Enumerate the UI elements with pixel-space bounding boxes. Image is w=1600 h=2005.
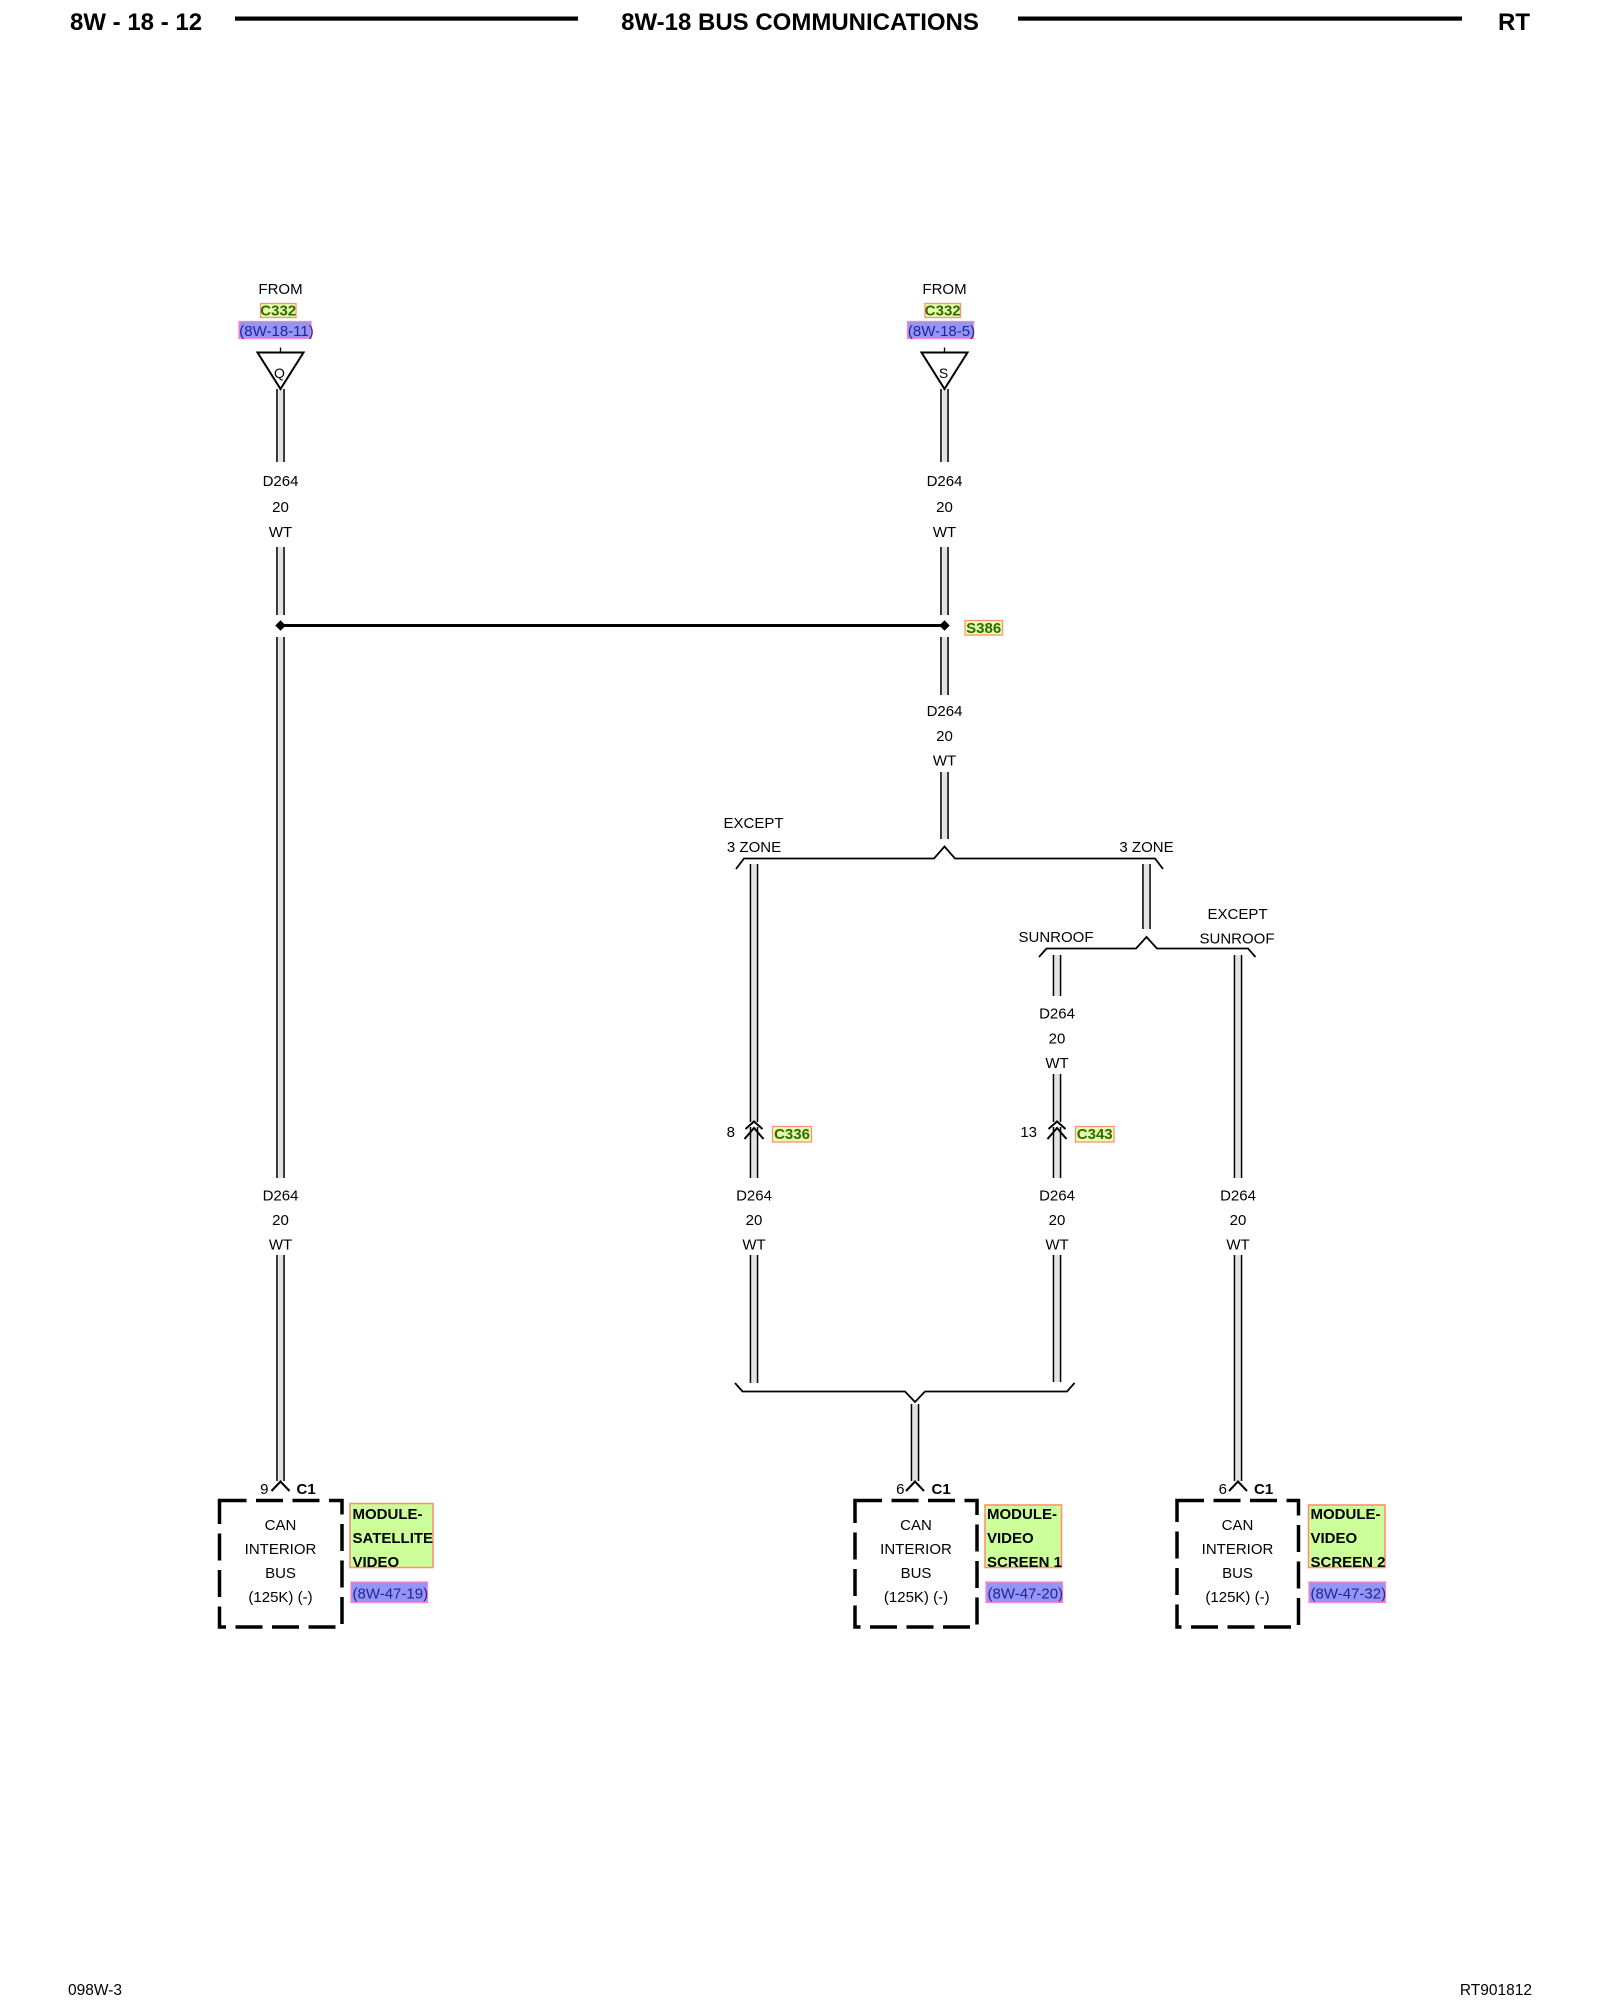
svg-text:WT: WT [1226,1237,1249,1254]
svg-text:20: 20 [1049,1212,1066,1229]
svg-text:S: S [939,365,948,381]
svg-text:SATELLITE: SATELLITE [353,1530,434,1547]
svg-text:20: 20 [272,1212,289,1229]
svg-text:D264: D264 [927,473,963,490]
svg-text:BUS: BUS [901,1565,932,1582]
svg-text:C1: C1 [932,1481,951,1498]
svg-text:D264: D264 [736,1188,772,1205]
svg-text:WT: WT [742,1237,765,1254]
svg-text:20: 20 [1049,1031,1066,1048]
svg-text:MODULE-: MODULE- [1311,1506,1381,1523]
svg-text:13: 13 [1020,1124,1037,1141]
svg-text:C336: C336 [774,1126,810,1143]
svg-text:C1: C1 [1254,1481,1273,1498]
svg-text:(8W-18-5): (8W-18-5) [908,323,975,340]
svg-text:D264: D264 [263,473,299,490]
svg-text:MODULE-: MODULE- [353,1506,423,1523]
svg-text:CAN: CAN [1222,1517,1254,1534]
svg-text:D264: D264 [1039,1188,1075,1205]
svg-text:SUNROOF: SUNROOF [1200,931,1275,948]
svg-text:FROM: FROM [922,281,966,298]
svg-text:20: 20 [1230,1212,1247,1229]
svg-text:SCREEN 2: SCREEN 2 [1311,1554,1386,1571]
svg-text:(125K) (-): (125K) (-) [1205,1589,1269,1606]
svg-text:20: 20 [746,1212,763,1229]
svg-text:8: 8 [727,1124,735,1141]
svg-text:C343: C343 [1077,1126,1113,1143]
svg-text:098W-3: 098W-3 [68,1982,122,1999]
svg-text:6: 6 [1219,1481,1227,1498]
svg-text:8W-18 BUS COMMUNICATIONS: 8W-18 BUS COMMUNICATIONS [621,9,979,36]
svg-text:VIDEO: VIDEO [987,1530,1034,1547]
svg-text:S386: S386 [966,620,1001,637]
svg-text:FROM: FROM [258,281,302,298]
svg-text:WT: WT [933,524,956,541]
svg-text:CAN: CAN [900,1517,932,1534]
svg-text:CAN: CAN [265,1517,297,1534]
svg-text:D264: D264 [263,1188,299,1205]
svg-text:RT901812: RT901812 [1460,1982,1532,1999]
svg-text:(8W-47-20): (8W-47-20) [988,1586,1064,1603]
svg-text:C332: C332 [925,303,961,320]
svg-text:SUNROOF: SUNROOF [1019,929,1094,946]
svg-text:20: 20 [936,499,953,516]
svg-text:20: 20 [272,499,289,516]
svg-text:BUS: BUS [1222,1565,1253,1582]
svg-text:6: 6 [896,1481,904,1498]
svg-text:WT: WT [933,753,956,770]
svg-text:INTERIOR: INTERIOR [880,1541,952,1558]
svg-text:WT: WT [1045,1055,1068,1072]
svg-text:9: 9 [260,1481,268,1498]
svg-text:20: 20 [936,728,953,745]
svg-text:INTERIOR: INTERIOR [245,1541,317,1558]
svg-text:3 ZONE: 3 ZONE [1119,839,1173,856]
svg-text:D264: D264 [927,703,963,720]
svg-text:Q: Q [274,365,285,381]
svg-text:WT: WT [1045,1237,1068,1254]
svg-text:(8W-47-19): (8W-47-19) [353,1586,429,1603]
svg-text:(8W-47-32): (8W-47-32) [1311,1586,1387,1603]
svg-text:VIDEO: VIDEO [353,1554,400,1571]
svg-text:8W - 18 - 12: 8W - 18 - 12 [70,9,202,36]
svg-text:VIDEO: VIDEO [1311,1530,1358,1547]
svg-text:C332: C332 [260,303,296,320]
svg-text:(8W-18-11): (8W-18-11) [239,323,313,340]
svg-text:(125K) (-): (125K) (-) [248,1589,312,1606]
svg-text:BUS: BUS [265,1565,296,1582]
svg-text:MODULE-: MODULE- [987,1506,1057,1523]
svg-text:C1: C1 [297,1481,316,1498]
svg-text:EXCEPT: EXCEPT [723,815,783,832]
svg-text:D264: D264 [1039,1006,1075,1023]
svg-text:INTERIOR: INTERIOR [1202,1541,1274,1558]
svg-text:(125K) (-): (125K) (-) [884,1589,948,1606]
svg-text:SCREEN 1: SCREEN 1 [987,1554,1062,1571]
svg-text:WT: WT [269,524,292,541]
svg-text:RT: RT [1498,9,1530,36]
svg-text:WT: WT [269,1237,292,1254]
svg-text:3 ZONE: 3 ZONE [727,839,781,856]
svg-text:EXCEPT: EXCEPT [1207,906,1267,923]
svg-text:D264: D264 [1220,1188,1256,1205]
